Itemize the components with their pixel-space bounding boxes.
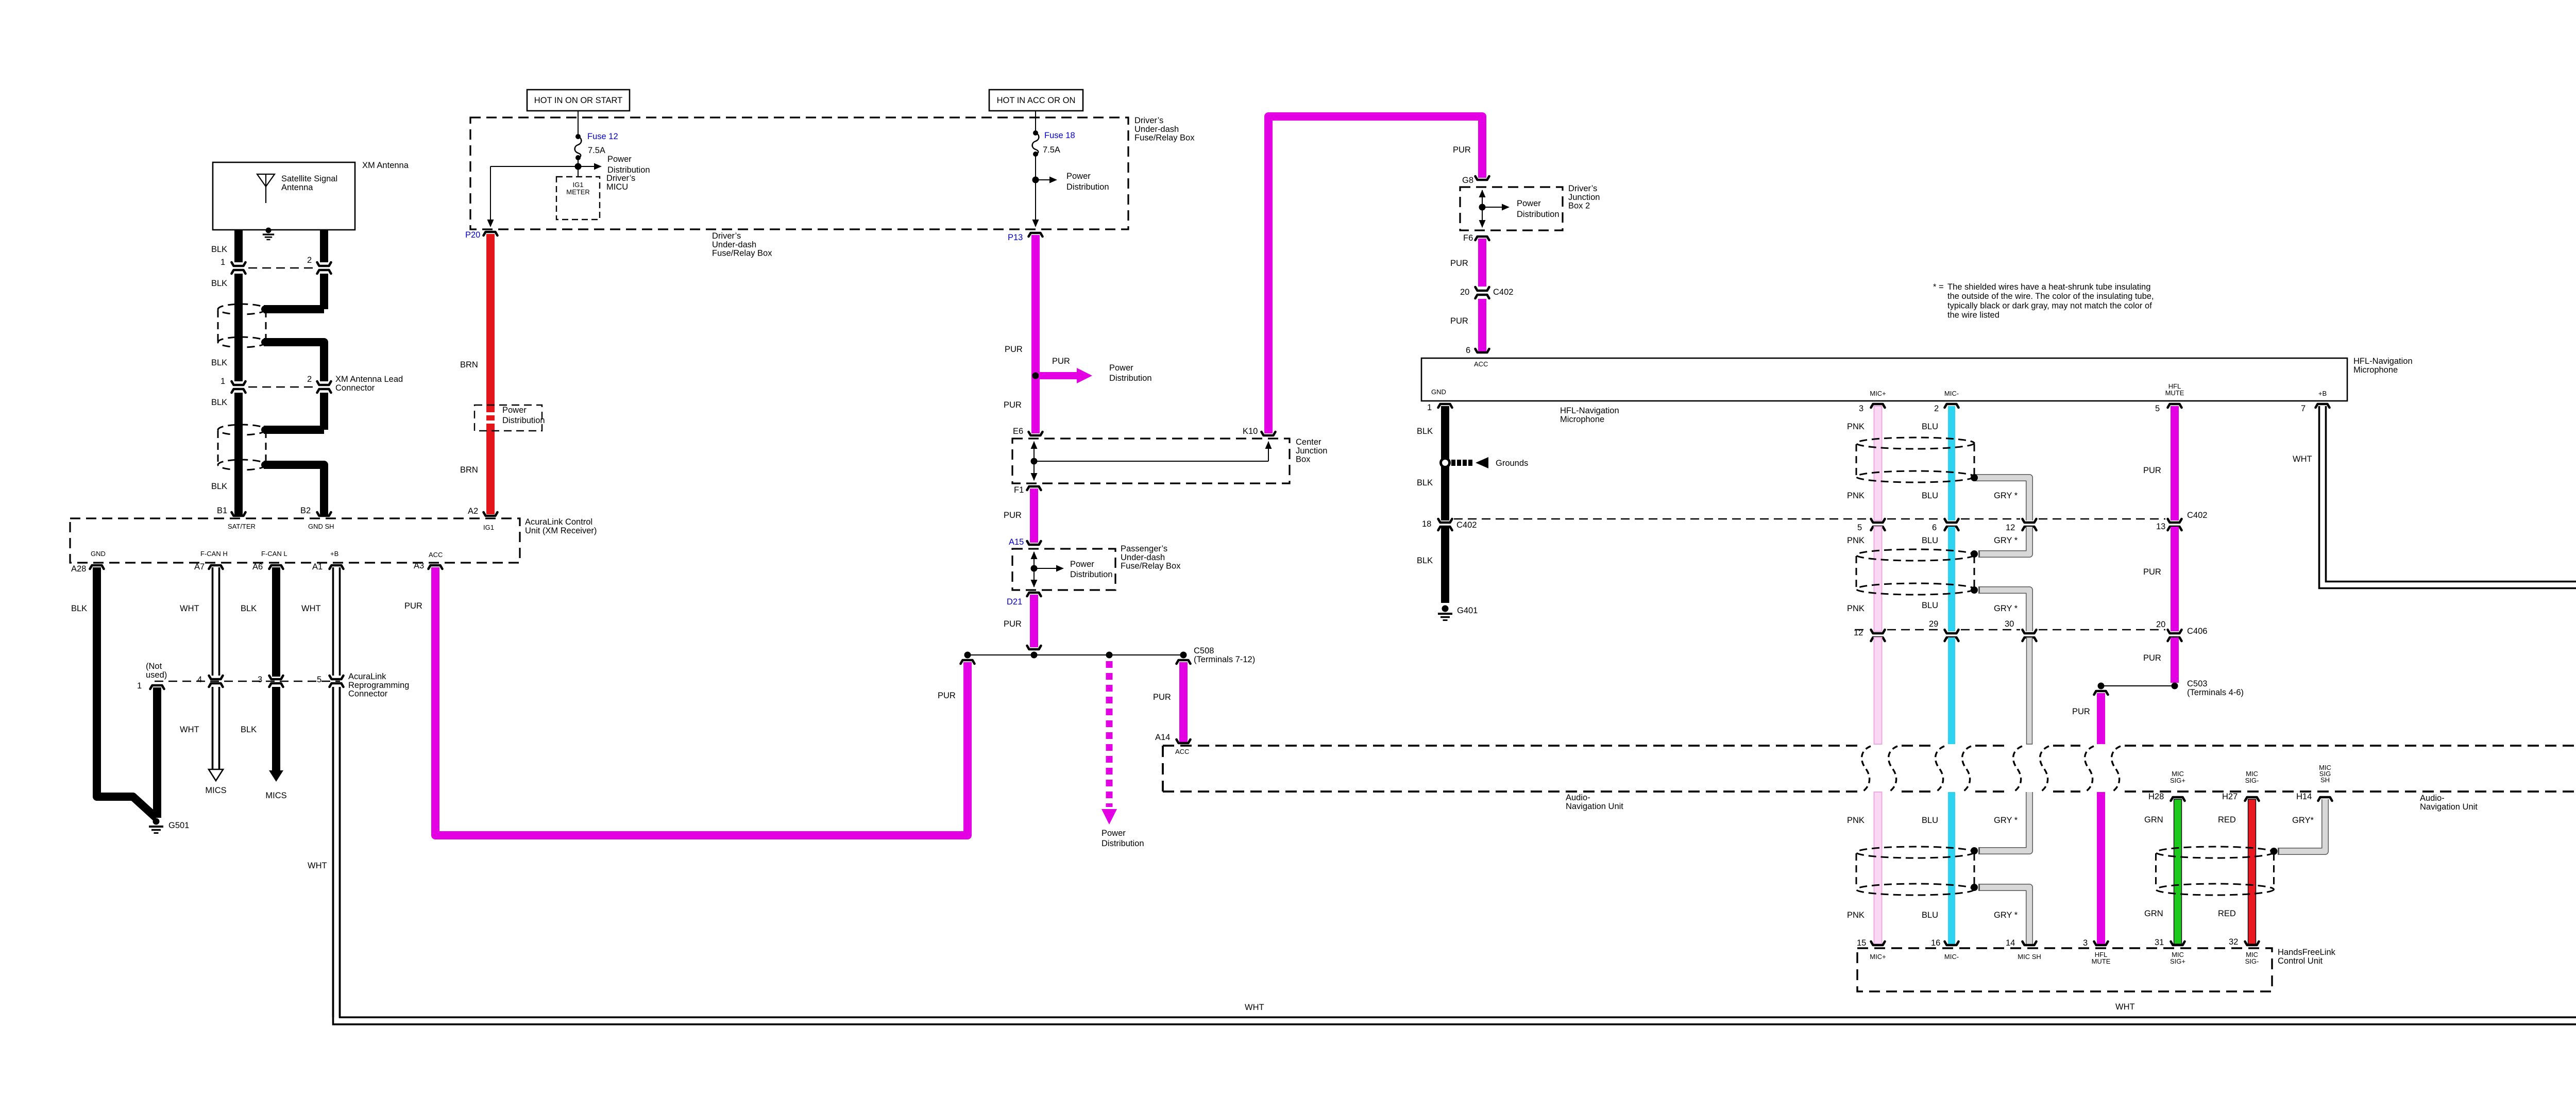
svg-text:(Terminals 4-6): (Terminals 4-6) [2187,688,2244,697]
power distribution arrow (fuse18) [1036,179,1052,180]
svg-text:HFL-Navigation: HFL-Navigation [1560,406,1619,415]
wire purple to A14 band [1177,660,1191,664]
terminal B2 [317,512,331,516]
svg-text:Under-dash: Under-dash [712,240,756,249]
svg-text:BLK: BLK [1417,478,1433,487]
svg-text:3: 3 [258,675,262,684]
Audio-Navigation Unit band bottom edge [1163,790,1857,793]
svg-text:BLK: BLK [241,725,257,734]
svg-text:Reprogramming: Reprogramming [348,681,409,690]
svg-text:A1: A1 [312,562,323,571]
wire GRY seg5 [1978,792,2029,851]
svg-text:BLK: BLK [211,398,227,407]
svg-text:30: 30 [2005,619,2014,629]
svg-text:6: 6 [1466,346,1470,355]
IG1 METER box [556,177,600,220]
svg-text:BRN: BRN [460,465,478,475]
svg-text:HandsFreeLink: HandsFreeLink [2278,948,2336,957]
svg-text:Distribution: Distribution [1070,570,1113,579]
svg-text:BLK: BLK [71,604,87,613]
connector XM Antenna Lead pins 1-2 (lower) [232,381,246,385]
svg-text:BLU: BLU [1922,911,1938,920]
svg-text:SIG+: SIG+ [2170,777,2185,784]
Passenger's Under-dash Fuse/Relay Box (left) [1012,549,1115,590]
terminal mic pin 6 [1476,349,1489,352]
svg-text:XM Antenna Lead: XM Antenna Lead [335,375,403,384]
svg-text:32: 32 [2229,937,2238,947]
wire GRY seg1 [1974,478,2029,520]
terminal mic pin 5 [2168,404,2182,408]
svg-text:GRY *: GRY * [1994,491,2018,500]
svg-text:Connector: Connector [335,383,375,393]
wire into fuse 12 [578,111,579,137]
svg-text:PUR: PUR [1450,259,1468,268]
wire pin3 black down [272,687,280,771]
svg-text:Power: Power [1066,172,1091,181]
svg-text:GRY *: GRY * [1994,604,2018,613]
svg-text:BLK: BLK [211,245,227,254]
reprog pin 4 [209,676,223,679]
svg-text:GND: GND [91,550,106,558]
svg-text:MIC+: MIC+ [1870,390,1886,397]
shield loop B [218,425,266,435]
wire +B white long down [332,687,334,1017]
svg-text:Box: Box [1296,455,1311,464]
svg-text:Junction: Junction [1568,193,1600,202]
wire PUR hfl seg1 [2094,691,2108,695]
svg-text:13: 13 [2156,522,2165,531]
svg-text:H14: H14 [2296,792,2312,801]
wire BLU seg2 [1948,527,1955,631]
svg-text:(Not: (Not [146,662,162,671]
svg-text:AcuraLink Control: AcuraLink Control [525,517,592,527]
svg-text:Satellite Signal: Satellite Signal [281,174,337,183]
AcuraLink Control Unit box [70,518,520,563]
svg-text:A14: A14 [1155,733,1170,742]
wire F-CAN H white [212,567,214,676]
wire GRY seg6 [1978,887,2029,944]
terminal mic pin 2 MIC- [1945,404,1959,408]
svg-text:MUTE: MUTE [2092,957,2111,965]
svg-text:P20: P20 [465,230,480,240]
band pass-through GRY [2013,746,2022,792]
MICS arrow white wire [209,769,223,781]
svg-text:BRN: BRN [460,360,478,369]
Audio-Navigation Unit band top edge [1163,745,1857,747]
svg-text:G8: G8 [1462,176,1473,185]
HOT IN ACC OR ON box [989,90,1083,111]
svg-text:ACC: ACC [1175,748,1189,755]
svg-text:WHT: WHT [180,604,199,613]
svg-text:A28: A28 [71,564,86,574]
shield 1 [1856,437,1974,449]
svg-text:Center: Center [1296,437,1321,447]
svg-text:Driver’s: Driver’s [712,231,741,241]
wire SAT/TER B1 black [234,230,243,262]
svg-text:METER: METER [566,188,590,196]
svg-text:PUR: PUR [2143,466,2161,475]
svg-text:IG1: IG1 [483,524,494,531]
wire purple F6 down [1478,239,1486,287]
svg-text:BLU: BLU [1922,816,1938,825]
shield 2 [1856,549,1974,561]
svg-text:3: 3 [1859,404,1863,413]
wire GND black A28 [97,567,156,818]
svg-text:typically black or dark gray,: typically black or dark gray, may not ma… [1947,301,2152,310]
svg-text:MIC SH: MIC SH [2018,953,2041,961]
svg-text:Fuse 18: Fuse 18 [1044,131,1075,140]
svg-text:SAT/TER: SAT/TER [228,523,256,530]
svg-text:31: 31 [2155,938,2164,947]
svg-text:BLU: BLU [1922,422,1938,431]
svg-text:Power: Power [502,406,527,415]
svg-text:MICU: MICU [606,182,628,192]
svg-text:Driver’s: Driver’s [606,174,635,183]
svg-text:Distribution: Distribution [1109,374,1152,383]
grounds symbol [1441,459,1450,467]
svg-text:PUR: PUR [1153,693,1171,702]
svg-text:C402: C402 [2187,511,2207,520]
svg-text:BLK: BLK [211,279,227,288]
band pass-through PNK [1862,746,1871,792]
svg-text:XM Antenna: XM Antenna [362,161,409,170]
band left edge [1162,746,1164,792]
terminal K10 [1262,432,1276,435]
svg-text:5: 5 [2155,404,2160,413]
svg-text:Under-dash: Under-dash [1121,553,1165,562]
passenger box internals [1033,552,1035,587]
HandsFreeLink Control Unit box [1857,948,2272,991]
terminal A28 [90,565,104,569]
svg-text:A3: A3 [414,561,424,570]
svg-text:GRN: GRN [2144,815,2163,824]
wire ACC purple P13-E6 [1031,235,1040,433]
svg-text:BLK: BLK [1417,427,1433,436]
svg-text:BLU: BLU [1922,536,1938,545]
HOT IN ON OR START box [527,90,630,111]
reprog pin 3 [269,676,283,679]
connector C406 pins 12 29 30 [1871,630,1885,633]
svg-text:7: 7 [2301,404,2306,413]
wire PNK seg4 [1874,792,1882,944]
Center Junction Box [1012,439,1290,483]
svg-text:BLU: BLU [1922,601,1938,610]
svg-text:* =: * = [1933,282,1944,292]
svg-text:PNK: PNK [1847,911,1865,920]
svg-text:PUR: PUR [2072,707,2090,716]
svg-text:Distribution: Distribution [1517,210,1560,219]
svg-text:Fuse 12: Fuse 12 [587,132,618,141]
wire PNK seg2 [1874,527,1882,631]
svg-text:PNK: PNK [1847,491,1865,500]
terminal H14 [2318,797,2332,801]
svg-text:BLK: BLK [1417,556,1433,565]
svg-text:15: 15 [1857,938,1866,948]
svg-text:A15: A15 [1009,537,1024,547]
svg-text:GRY*: GRY* [2292,816,2314,825]
svg-text:GND: GND [1431,388,1446,396]
wire PUR mute seg1 [2171,406,2179,520]
svg-text:MIC-: MIC- [1944,953,1959,961]
svg-text:Driver’s: Driver’s [1568,184,1597,193]
svg-text:12: 12 [2006,523,2015,532]
svg-text:SH: SH [2320,776,2330,784]
svg-text:Microphone: Microphone [1560,415,1604,424]
svg-text:7.5A: 7.5A [588,146,605,155]
svg-text:C503: C503 [2187,679,2207,688]
svg-text:5: 5 [1857,523,1862,532]
wire mic GND black [1441,406,1449,520]
terminal A3 [429,565,443,569]
svg-text:MICS: MICS [205,786,226,795]
power distribution inline box (red wire) [474,405,542,431]
shield loop A [218,304,266,314]
svg-text:H27: H27 [2222,792,2238,801]
svg-text:29: 29 [1929,619,1938,629]
svg-text:AcuraLink: AcuraLink [348,672,386,681]
svg-text:MIC-: MIC- [1944,390,1959,397]
junction dot P13 wire [1032,373,1039,379]
wire GRY seg4 [2027,637,2032,744]
svg-text:18: 18 [1422,519,1431,529]
svg-text:Under-dash: Under-dash [1134,125,1179,134]
svg-text:WHT: WHT [1245,1003,1264,1012]
dashed purple power arrow [1106,661,1113,807]
svg-text:The shielded wires have a heat: The shielded wires have a heat-shrunk tu… [1947,282,2150,292]
svg-text:Driver’s: Driver’s [1134,116,1163,125]
svg-text:BLK: BLK [241,604,257,613]
svg-text:1: 1 [221,258,225,267]
svg-text:PUR: PUR [1052,357,1070,366]
svg-text:K10: K10 [1243,427,1258,436]
svg-text:WHT: WHT [2293,455,2312,464]
svg-text:A7: A7 [194,562,205,571]
wire BLU seg4 [1948,792,1955,944]
svg-text:Control Unit: Control Unit [2278,956,2323,966]
svg-text:1: 1 [1427,403,1432,412]
svg-text:C402: C402 [1493,288,1513,297]
svg-text:RED: RED [2218,909,2236,918]
svg-text:B1: B1 [217,506,227,515]
svg-text:MIC+: MIC+ [1870,953,1886,961]
band pass-through PUR [2085,746,2094,792]
svg-text:G501: G501 [168,821,189,830]
connector XM antenna pins 1-2 (upper) [232,262,246,266]
svg-text:ACC: ACC [1474,360,1488,368]
svg-text:Power: Power [1101,829,1126,838]
svg-text:F-CAN L: F-CAN L [261,550,287,558]
svg-text:SIG+: SIG+ [2170,957,2185,965]
wire IG1 red BRN [486,234,495,412]
terminal mic pin 3 MIC+ [1871,404,1885,408]
svg-text:G401: G401 [1457,606,1478,615]
svg-text:BLK: BLK [211,482,227,491]
wire +B white upper [332,567,334,676]
terminal A15 [1027,541,1041,545]
band pass-through BLU [1936,746,1944,792]
wire purple D21 down [1030,595,1038,647]
svg-text:Power: Power [1109,363,1133,373]
wire WHT +B run [2319,406,2576,588]
wire pin4 white down [212,687,214,769]
C508 connector line [968,654,1183,655]
terminal P13 [1029,233,1043,237]
svg-text:PNK: PNK [1847,536,1865,545]
svg-text:PUR: PUR [1453,145,1471,155]
C503 connector line [2101,685,2175,686]
terminal above C508 line [1027,646,1041,649]
satellite antenna symbol [257,174,275,187]
svg-text:C402: C402 [1456,520,1477,530]
wire purple to mic pin6 [1478,299,1486,351]
svg-text:PUR: PUR [1004,400,1022,410]
ground G501 [153,818,160,825]
svg-text:PUR: PUR [2143,653,2161,663]
svg-text:16: 16 [1931,938,1940,948]
svg-text:Microphone: Microphone [2353,365,2398,375]
DJB2 internals [1482,190,1483,227]
antenna box ground [266,228,272,233]
svg-text:WHT: WHT [2115,1002,2135,1012]
svg-text:Navigation Unit: Navigation Unit [2420,802,2478,812]
wire BLU seg1 [1948,406,1955,520]
power distribution stub arrow purple [1039,372,1077,379]
svg-text:14: 14 [2006,938,2015,948]
svg-text:GND SH: GND SH [308,523,334,530]
connector C402 black-18 [1438,519,1452,523]
svg-text:Power: Power [1517,199,1541,208]
svg-text:PUR: PUR [1004,619,1022,629]
svg-text:GRY *: GRY * [1994,911,2018,920]
svg-text:PNK: PNK [1847,604,1865,613]
svg-text:PUR: PUR [1005,345,1023,354]
branch to P20 [490,166,578,167]
svg-text:A2: A2 [468,507,478,516]
terminal G8 [1476,176,1489,180]
svg-text:7.5A: 7.5A [1043,145,1060,155]
svg-text:Junction: Junction [1296,446,1327,456]
svg-text:Connector: Connector [348,689,388,699]
wire GRN [2174,799,2182,944]
svg-text:Antenna: Antenna [281,183,313,192]
wire below fuse 18 [1035,154,1036,225]
fuse F12 [575,134,581,139]
wire F-CAN L black [272,567,280,677]
terminal F1 [1027,486,1041,490]
svg-text:GRY *: GRY * [1994,536,2018,545]
C402 dashed line [1454,518,1869,520]
wire below fuse 12 [578,158,579,177]
wire PUR mute seg2 [2171,527,2179,631]
svg-text:WHT: WHT [301,604,321,613]
svg-text:RED: RED [2218,815,2236,824]
svg-text:MUTE: MUTE [2165,389,2184,397]
svg-text:IG1: IG1 [573,181,584,189]
wire ACC purple long (A3 loop) [961,660,975,664]
svg-text:C406: C406 [2187,627,2207,636]
svg-text:B2: B2 [300,506,311,515]
svg-text:1: 1 [137,681,142,691]
svg-text:HFL-Navigation: HFL-Navigation [2353,357,2413,366]
svg-text:Fuse/Relay Box: Fuse/Relay Box [1134,133,1195,143]
svg-text:used): used) [146,670,167,680]
svg-text:Distribution: Distribution [502,416,545,425]
svg-text:Grounds: Grounds [1496,459,1528,468]
svg-text:PUR: PUR [2143,567,2161,577]
power distribution arrow (fuse12) [578,166,597,167]
terminal A2 [484,512,498,516]
svg-text:HOT IN ON OR START: HOT IN ON OR START [534,96,622,105]
svg-text:Fuse/Relay Box: Fuse/Relay Box [1121,562,1181,571]
svg-text:PUR: PUR [1004,511,1022,520]
svg-text:Distribution: Distribution [1101,839,1144,848]
svg-text:H28: H28 [2148,792,2164,801]
svg-text:Navigation Unit: Navigation Unit [1566,802,1623,811]
svg-text:2: 2 [307,256,312,265]
terminal H27 [2245,797,2259,801]
svg-text:Power: Power [607,155,632,164]
svg-text:Fuse/Relay Box: Fuse/Relay Box [712,249,772,258]
connector C402 pins 5 6 12 [1871,519,1885,523]
svg-text:GRY *: GRY * [1994,816,2018,825]
terminal A1 [330,565,344,569]
long bottom white wire [333,687,2576,1024]
svg-text:HOT IN ACC OR ON: HOT IN ACC OR ON [997,96,1076,105]
wire ACC purple from A3 [435,567,968,835]
Driver's Junction Box 2 (top) [1460,187,1563,230]
wire PNK seg3 [1874,637,1882,744]
svg-text:F6: F6 [1463,233,1473,243]
svg-text:WHT: WHT [180,725,199,734]
wire purple K10 riser loop [1268,116,1482,433]
terminal A7 [209,565,223,569]
svg-text:the outside of the wire. The c: the outside of the wire. The color of th… [1947,292,2154,301]
terminal B1 [232,512,246,516]
wire RED mic sig- [2248,799,2256,944]
svg-text:12: 12 [1854,628,1863,637]
svg-text:E6: E6 [1013,427,1023,436]
terminal D21 [1027,593,1041,596]
wire into fuse 18 [1035,111,1036,133]
svg-text:Unit (XM Receiver): Unit (XM Receiver) [525,526,597,535]
svg-text:P13: P13 [1008,233,1023,242]
C406 dashed line [1855,629,1869,631]
svg-text:Passenger’s: Passenger’s [1121,544,1167,553]
svg-text:20: 20 [1460,288,1469,297]
wire pin1 stub black [153,687,161,818]
svg-text:C508: C508 [1194,646,1214,655]
svg-text:GRN: GRN [2144,909,2163,918]
svg-text:D21: D21 [1007,597,1022,607]
terminal P20 [484,232,498,235]
svg-text:SIG-: SIG- [2245,957,2259,965]
svg-text:Box 2: Box 2 [1568,201,1590,211]
svg-text:ACC: ACC [429,551,443,559]
terminal mic pin 7 [2316,404,2330,408]
svg-text:A6: A6 [252,562,263,571]
wire BLU seg3 [1948,637,1955,744]
MICS arrow black wire [269,770,283,782]
wire PUR mute seg3 [2171,637,2179,683]
fuse F18 [1033,130,1038,136]
svg-text:5: 5 [317,675,321,684]
svg-text:F1: F1 [1014,485,1024,495]
svg-text:MICS: MICS [265,791,286,800]
svg-text:(Terminals 7-12): (Terminals 7-12) [1194,655,1255,664]
svg-text:Power: Power [1070,560,1094,569]
svg-text:PUR: PUR [1450,316,1468,326]
connector C402 pin 13 [2168,519,2182,523]
